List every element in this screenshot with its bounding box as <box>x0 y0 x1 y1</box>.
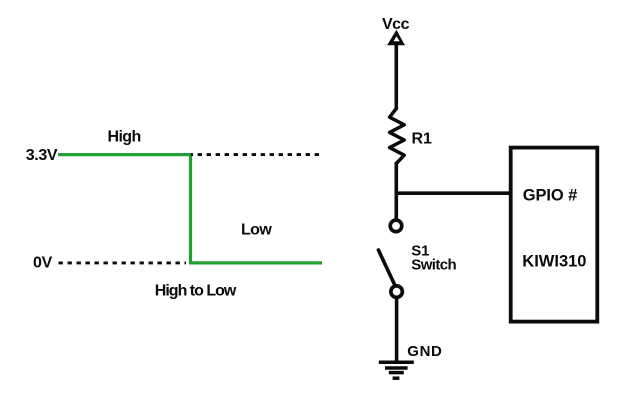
svg-text:Vcc: Vcc <box>382 16 410 33</box>
waveform falling-edge green segment <box>189 153 192 264</box>
waveform high-level green segment <box>58 153 192 156</box>
svg-text:3.3V: 3.3V <box>26 147 58 164</box>
svg-text:R1: R1 <box>412 131 433 148</box>
Vcc arrow <box>387 30 405 45</box>
waveform low-level green segment <box>189 261 322 264</box>
svg-text:GND: GND <box>407 343 442 360</box>
wire junction to GPIO box <box>396 191 509 195</box>
switch S1 blade <box>378 250 395 285</box>
switch S1 top terminal <box>390 220 402 232</box>
wire Vcc to resistor <box>394 44 398 110</box>
svg-text:High to Low: High to Low <box>155 282 237 299</box>
ground <box>379 362 414 378</box>
dashed reference line at low level <box>59 261 187 264</box>
wire switch to ground <box>395 298 399 363</box>
IC box KIWI310 <box>511 148 598 322</box>
svg-text:High: High <box>108 128 141 145</box>
dashed reference line at high level <box>191 153 323 156</box>
svg-text:0V: 0V <box>33 255 53 272</box>
resistor R1 <box>390 109 405 164</box>
switch S1 bottom terminal <box>391 286 403 298</box>
svg-text:Switch: Switch <box>411 257 456 274</box>
svg-text:KIWI310: KIWI310 <box>522 253 586 271</box>
wire resistor to switch, through junction <box>394 162 398 219</box>
svg-text:GPIO #: GPIO # <box>523 186 577 204</box>
svg-text:Low: Low <box>241 222 272 239</box>
